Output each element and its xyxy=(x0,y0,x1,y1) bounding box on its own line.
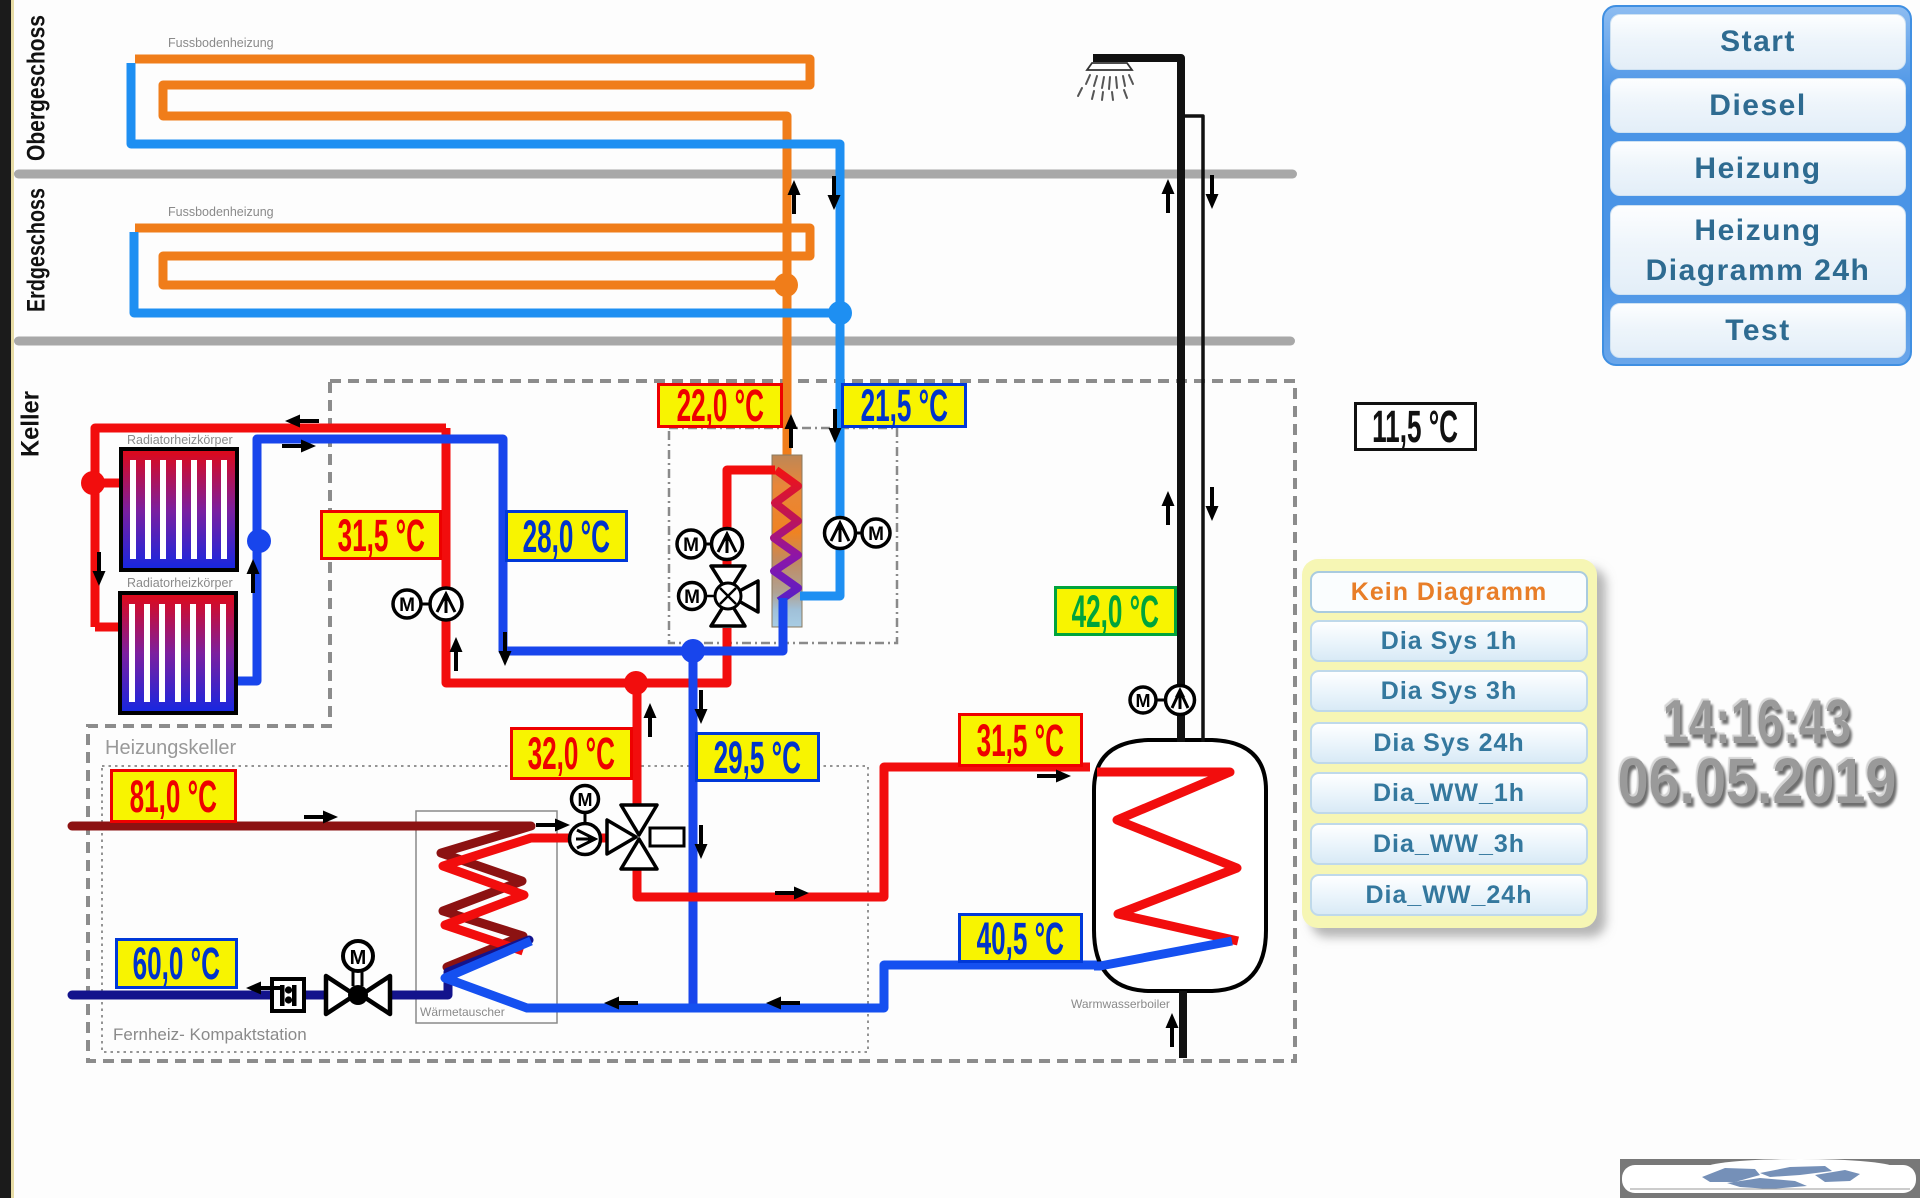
wire: boiler coil outlet (blue diagonal) xyxy=(1094,941,1232,966)
wire: district heating supply (dark red) xyxy=(72,826,531,967)
wire: exchanger to floor return riser (light blue) xyxy=(800,592,840,601)
node: red junction mixing line xyxy=(624,671,648,695)
svg-text:Radiatorheizkörper: Radiatorheizkörper xyxy=(127,576,233,590)
svg-text:Erdgeschoss: Erdgeschoss xyxy=(23,188,51,312)
label T 29.5 xyxy=(695,732,820,782)
arrow down blue drop at 28.0 xyxy=(499,632,512,666)
logo bottom right xyxy=(1620,1159,1920,1198)
label T 81.0 xyxy=(110,769,237,823)
label T 21.5 xyxy=(841,383,967,428)
svg-text:Fernheiz- Kompaktstation: Fernheiz- Kompaktstation xyxy=(113,1025,307,1044)
button Dia Sys 1h xyxy=(1310,620,1588,662)
arrow right exchanger outlet xyxy=(536,819,570,832)
arrow up orange keller xyxy=(785,414,798,448)
arrow left blue station return 2 xyxy=(766,997,800,1010)
arrow right red to boiler xyxy=(775,887,809,900)
button Dia Sys 24h xyxy=(1310,722,1588,764)
button Dia_WW_1h xyxy=(1310,772,1588,814)
arrow up blue radiator rise xyxy=(247,559,260,593)
button Heizung xyxy=(1610,141,1906,196)
node: blue junction EG return xyxy=(828,301,852,325)
arrow down cold pipe xyxy=(1206,175,1219,209)
label T 11.5 outside xyxy=(1354,402,1477,451)
wire: domestic hot water pipe (thick black) xyxy=(1093,58,1181,742)
arrow up OG riser xyxy=(788,180,801,214)
label T 40.5 xyxy=(958,913,1083,963)
arrow down blue mid drop xyxy=(695,825,708,859)
pump P3 floor return xyxy=(825,518,891,549)
button Test xyxy=(1610,303,1906,358)
hot water boiler body xyxy=(1094,740,1266,991)
mixing valve V1 (3-way with ball) xyxy=(679,566,759,626)
navigation panel xyxy=(1602,5,1912,366)
wire: blue drop to station return xyxy=(689,651,698,1007)
arrow down OG return xyxy=(828,176,841,210)
arrow left navy return xyxy=(246,982,280,995)
svg-text:M: M xyxy=(399,595,415,616)
button Dia_WW_3h xyxy=(1310,823,1588,865)
arrow left blue station return 1 xyxy=(604,997,638,1010)
clock time xyxy=(1639,687,1875,758)
valve V2 3-way district (with actuator) xyxy=(607,805,684,869)
svg-text:M: M xyxy=(684,587,700,608)
label T 60.0 xyxy=(115,938,238,989)
label T 42.0 xyxy=(1054,586,1177,636)
wire: district heating return (navy) xyxy=(72,940,529,995)
wire: boiler hot feed (bright red) xyxy=(637,767,1090,897)
arrow left blue boiler outlet xyxy=(1041,948,1075,961)
arrow up red riser at 31.5 xyxy=(450,637,463,671)
svg-text:M: M xyxy=(683,535,699,556)
pump P4 boiler circulation xyxy=(1130,686,1195,715)
svg-text:Fussbodenheizung: Fussbodenheizung xyxy=(168,205,274,219)
wire: radiator circuit return (royal blue) xyxy=(121,439,783,681)
arrow up red at 32.0 xyxy=(644,703,657,737)
button Heizung Diagramm 24h xyxy=(1610,205,1906,295)
arrow up DHW pipe xyxy=(1162,179,1175,213)
wire: cold feed below boiler (black) xyxy=(1179,991,1187,1058)
wire: radiator circuit supply (bright red) xyxy=(95,428,727,683)
arrow right blue radiator return xyxy=(282,440,316,453)
label T 28.0 xyxy=(505,510,628,562)
floor separator bar 2 xyxy=(14,337,1295,346)
label T 32.0 xyxy=(510,727,633,780)
heat exchanger column (floor heating) xyxy=(772,455,802,627)
valve V3 return shut-off (with motor) xyxy=(326,941,390,1014)
wire: cold water pipe (thin black) xyxy=(1185,116,1203,742)
shower head xyxy=(1078,63,1133,100)
wire: exchanger secondary hot out (bright red zigzag) xyxy=(443,838,610,951)
node: orange junction EG supply xyxy=(774,273,798,297)
button Start xyxy=(1610,14,1906,70)
button Kein Diagramm xyxy=(1310,571,1588,613)
wire: mixing valve to exchanger (red) xyxy=(727,470,775,566)
svg-text:Radiatorheizkörper: Radiatorheizkörper xyxy=(127,433,233,447)
button Diesel xyxy=(1610,78,1906,133)
diagram selector panel xyxy=(1302,559,1597,928)
node: blue junction radiator return xyxy=(247,529,271,553)
wire: floor-heating return (light blue) Erdgeschoss serpentine xyxy=(134,232,836,313)
svg-text:Wärmetauscher: Wärmetauscher xyxy=(420,1005,505,1019)
sidebar yellow stripe xyxy=(11,0,14,1198)
wire: floor-heating supply (orange) Obergeschoss serpentine + riser xyxy=(135,59,810,456)
left black sidebar xyxy=(0,0,11,1198)
wire: red drop to Fernheiz valve xyxy=(633,683,642,806)
arrow up black below boiler xyxy=(1166,1013,1179,1047)
label T 31.5 boiler xyxy=(958,713,1083,767)
wire: boiler cold return (bright blue zigzag and line) xyxy=(445,941,1232,1008)
svg-text:Obergeschoss: Obergeschoss xyxy=(23,15,51,161)
arrow right red at boiler inlet xyxy=(1037,770,1071,783)
arrow right darkred supply xyxy=(304,811,338,824)
wire: floor-heating return (light blue) Obergeschoss serpentine + riser xyxy=(131,63,840,596)
radiator 2 xyxy=(120,593,236,713)
arrow down blue at 29.5 xyxy=(695,690,708,724)
arrow left red radiator supply xyxy=(285,415,319,428)
pump P5 district supply xyxy=(570,786,601,855)
arrow down blue keller xyxy=(829,409,842,443)
svg-text:Heizungskeller: Heizungskeller xyxy=(105,737,237,759)
svg-text:Fussbodenheizung: Fussbodenheizung xyxy=(168,36,274,50)
Waermetauscher box xyxy=(416,811,557,1023)
radiator 1 xyxy=(121,449,237,570)
svg-text:M: M xyxy=(578,790,593,810)
label T 31.5 radiator xyxy=(320,510,442,560)
arrow down red radiator drop xyxy=(93,552,106,586)
button Dia Sys 3h xyxy=(1310,670,1588,712)
wire: boiler internal coil (red) xyxy=(1097,772,1238,941)
clock date xyxy=(1600,744,1913,818)
svg-text:M: M xyxy=(868,524,884,545)
Fernheiz-Kompaktstation dotted box xyxy=(102,766,868,1052)
arrow up DHW pipe lower xyxy=(1162,491,1175,525)
wire: exchanger internal coil (red to violet) xyxy=(774,470,798,601)
check valve CV1 xyxy=(272,979,304,1011)
svg-text:M: M xyxy=(1136,691,1151,711)
mixing station dash-dot box xyxy=(669,428,897,643)
svg-text:Keller: Keller xyxy=(17,391,45,457)
pump P1 radiator circuit xyxy=(393,588,462,620)
node: red junction radiator supply xyxy=(81,471,105,495)
button Dia_WW_24h xyxy=(1310,874,1588,916)
Keller dashed boundary box xyxy=(88,381,1295,1061)
label T 22.0 xyxy=(657,383,783,428)
svg-text:Warmwasserboiler: Warmwasserboiler xyxy=(1071,997,1170,1011)
pump P2 mixing circuit xyxy=(677,529,743,560)
svg-text:M: M xyxy=(350,947,367,969)
arrow down cold pipe lower xyxy=(1206,487,1219,521)
wire: floor-heating supply (orange) Erdgeschoss serpentine xyxy=(135,228,810,285)
floor separator bar 1 xyxy=(14,170,1297,179)
node: blue junction return line xyxy=(681,639,705,663)
